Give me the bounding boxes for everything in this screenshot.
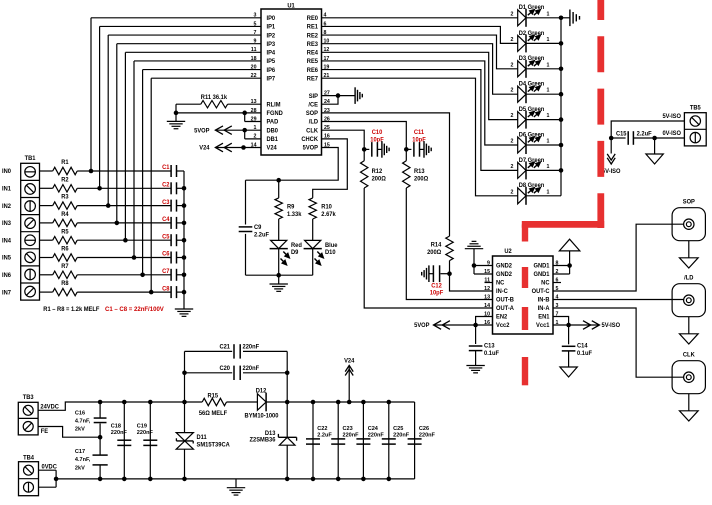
capacitor C6 [170,252,172,264]
svg-text:EN2: EN2 [496,315,508,321]
LED D8 Green [518,188,526,204]
TVS diode D11 top half [176,433,193,441]
svg-text:2.2uF: 2.2uF [317,432,332,438]
svg-text:4.7nF,: 4.7nF, [75,418,91,424]
svg-text:IN2: IN2 [2,204,12,210]
wire R6 to junction [77,257,134,259]
capacitor C16 [94,417,107,419]
ground CLK connector [679,411,698,421]
svg-text:IP7: IP7 [267,76,276,82]
wire PAD stub [245,121,261,123]
wire R3 to junction [77,205,108,207]
svg-text:2.67k: 2.67k [321,212,336,218]
svg-text:SIP: SIP [309,94,318,100]
wire C25 column [388,402,390,479]
svg-text:V24: V24 [199,146,210,152]
wire C3 to ground rail [177,205,185,207]
capacitor C7 [170,269,172,281]
wire SIP junction to sideways ground [338,95,355,97]
wire C14 to ground [568,351,570,367]
wire bus IP5 vertical [133,61,135,258]
junction D12/C20 node [285,400,290,405]
resistor R6 [53,254,77,261]
wire V24 to pin 14 [215,147,261,149]
svg-text:R7: R7 [61,264,69,270]
svg-text:D9: D9 [291,250,299,256]
svg-text:R10: R10 [321,205,332,211]
wire D7 cathode to rail [526,169,561,171]
capacitor C26 [408,438,422,440]
svg-text:24VDC: 24VDC [40,404,59,410]
connector CLK body [672,361,705,394]
svg-text:OUT-C: OUT-C [532,289,551,295]
D5 emission arrows [528,114,531,117]
svg-text:R2: R2 [61,177,69,183]
svg-text:IN0: IN0 [2,169,12,175]
junction EN2/Vcc2 [473,323,478,328]
D7 emission arrows [528,165,531,168]
connector SOP contact [684,219,694,229]
svg-text:C14: C14 [577,343,588,349]
svg-text:IP5: IP5 [267,59,276,65]
TB1 screw terminal IN0 [25,167,36,178]
wire CLK connector ground stem [688,394,690,411]
wire TB4 pin2 [39,486,57,488]
svg-text:R1: R1 [61,160,69,166]
capacitor C21 [233,344,235,358]
connector /LD contact [684,295,694,305]
junction D13 rail bottom [285,477,290,482]
connector SOP body [672,208,705,241]
wire TB1 IN5 to R6 [40,257,53,259]
TB1 screw terminal IN5 [25,252,36,263]
junction C23 top [336,400,341,405]
svg-text:C8: C8 [162,286,170,292]
svg-text:220nF: 220nF [111,430,128,436]
svg-text:/LD: /LD [684,275,693,281]
TB5 screw terminal 1 [690,116,700,126]
wire R9 stem [278,180,280,198]
junction C17 rail [98,477,103,482]
svg-text:C17: C17 [75,449,85,455]
wire C12 to ground [430,273,434,275]
svg-text:C6: C6 [162,252,170,258]
wire C11 node [406,148,411,150]
TB1 screw terminal IN7 [25,286,36,297]
svg-text:RE2: RE2 [307,33,319,39]
TB3 screw terminal 1 [23,405,33,415]
junction C2 ground rail [182,186,187,191]
wire D13 bottom [286,445,288,479]
TB1 screw terminal IN6 [25,269,36,280]
D6 emission arrows [528,140,531,143]
svg-text:CHCK: CHCK [301,137,318,143]
svg-text:R8: R8 [61,281,69,287]
wire C19 column [149,402,151,479]
wire C21 right lead [243,350,287,352]
TB1 screw terminal IN4 [25,235,36,246]
svg-text:1: 1 [547,138,550,144]
capacitor C17 [93,454,108,456]
ground C11 [423,141,425,158]
svg-text:R12: R12 [372,169,383,175]
wire bus IP6 vertical [142,70,144,275]
junction C22 bottom [311,477,316,482]
wire EN2 stub [476,317,493,326]
wire C20 right lead [243,372,287,374]
wire R2 to junction [77,187,99,189]
wire FGND to PAD [244,113,246,122]
svg-text:2.2uF: 2.2uF [637,131,652,137]
svg-text:C22: C22 [317,426,327,432]
junction LED rail D5 [559,117,564,122]
wire C12 node to U2 IN-C [450,274,493,291]
ground C14 triangle [560,367,577,377]
svg-text:2.2uF: 2.2uF [254,232,269,238]
TB5 screw terminal 2 [690,132,700,142]
svg-text:GND2: GND2 [496,264,513,270]
TB1 cell divider 6 [21,265,40,267]
wire TB1 IN7 to R8 [40,291,53,293]
zener diode D13 [278,436,296,438]
wire SOP connector ground stem [688,241,690,258]
wire bus IP4 vertical [124,52,126,240]
svg-text:IP2: IP2 [267,33,276,39]
TB4 screw terminal 2 [24,482,34,492]
V24 arrow at pin 14 [215,143,223,152]
isolation boundary corner segment [522,221,604,228]
wire TB4 tie [55,470,57,487]
terminal block TB1 [21,163,40,300]
wire GND2 pin15 stub [474,273,493,275]
wire RE5 to D6 [322,61,518,145]
capacitor C22 [306,438,320,440]
svg-text:C11: C11 [414,130,425,136]
junction R14/C12 [447,271,452,276]
capacitor C25 [382,438,396,440]
wire TB1 IN2 to R3 [40,205,53,207]
wire D13 top [286,402,288,437]
junction CLK/C10/R12 [362,147,367,152]
ground C15 triangle [646,154,663,164]
svg-text:C1 – C8 = 22nF/100V: C1 – C8 = 22nF/100V [105,306,165,313]
wire GND2 pin9 stub [474,265,493,267]
wire 0V rail ground stem [235,479,237,488]
junction R5/IP4 bus [123,238,128,243]
wire bus IP2 horizontal to U1 [108,34,261,36]
junction DB0/DB1 [242,128,247,133]
wire bus IP1 horizontal to U1 [100,25,261,27]
junction LED rail D2 [559,41,564,46]
svg-text:R9: R9 [287,205,295,211]
TB4 divider [19,478,39,480]
capacitor C1 [170,165,172,177]
wire junction to C3 [108,205,171,207]
D8 emission arrows [528,191,531,194]
wire D9 to ground rail [278,249,280,276]
wire R8 to junction [77,291,151,293]
svg-text:OUT-A: OUT-A [496,306,515,312]
svg-text:Vcc2: Vcc2 [496,323,510,329]
wire C10 node to R12 [363,149,365,160]
svg-text:Z2SMB36: Z2SMB36 [249,437,276,443]
wire C15 ground stem [654,138,656,154]
D9 emission arrows [283,252,286,255]
svg-text:D13: D13 [265,431,276,437]
resistor R5 [53,237,77,244]
wire SIP to ground [322,95,339,97]
resistor R7 [53,271,77,278]
svg-text:DB1: DB1 [267,137,279,143]
svg-text:C7: C7 [162,269,170,275]
junction C19 top [148,400,153,405]
svg-text:R15: R15 [208,393,219,399]
wire D12 to V24 rail [266,401,415,403]
svg-text:220nF: 220nF [419,432,436,438]
svg-text:IP0: IP0 [267,16,276,22]
wire /CE tie [322,96,339,105]
capacitor C8 [170,286,172,298]
junction ground rail [276,273,281,278]
svg-text:RE4: RE4 [307,50,319,56]
junction R1/IP0 bus [89,169,94,174]
wire TB1 IN6 to R7 [40,274,53,276]
wire junction to C6 [134,257,171,259]
svg-text:PAD: PAD [267,120,279,126]
wire RE1 to D2 [322,26,518,43]
svg-text:IN-A: IN-A [538,306,551,312]
resistor R1 [53,167,77,174]
wire bus IP1 vertical [99,26,101,188]
wire R11 left lead [176,103,201,105]
LED D5 Green [518,112,526,128]
wire C13 stem [475,325,477,344]
wire D8 cathode to rail [526,195,561,197]
svg-text:Blue: Blue [325,243,338,249]
wire C7 to ground rail [177,274,185,276]
wire D11 bottom [184,449,186,479]
resistor R13 [403,161,410,188]
svg-text:R6: R6 [61,247,69,253]
svg-text:2: 2 [511,62,514,68]
svg-text:2: 2 [511,113,514,119]
svg-text:/CE: /CE [308,102,318,108]
svg-text:1: 1 [547,88,550,94]
junction C3 ground rail [182,203,187,208]
wire TB5 5V-ISO [611,121,684,138]
wire 5VOP to DB0 [215,129,261,131]
wire D1 cathode to rail [526,17,561,19]
junction V24 pin 14 [241,145,246,150]
junction TB4/0V rail [54,477,59,482]
wire R5 to junction [77,239,125,241]
svg-text:R3: R3 [61,195,69,201]
resistor R10 [309,198,316,219]
svg-text:1: 1 [547,62,550,68]
wire TB3 24VDC [38,402,202,410]
wire rail to ground [183,292,185,309]
wire C15 right lead [634,137,684,139]
svg-text:2: 2 [511,138,514,144]
svg-text:TB4: TB4 [23,455,35,461]
svg-text:1: 1 [547,37,550,43]
junction LED rail D1 [559,15,564,20]
wire junction to C1 [91,170,171,172]
junction R3/IP2 bus [106,203,111,208]
capacitor C14 [562,345,576,347]
capacitor C24 [356,438,370,440]
wire SOP to R14 [322,113,450,236]
svg-text:Vcc1: Vcc1 [536,323,550,329]
junction C25 top [387,400,392,405]
svg-text:C13: C13 [484,343,495,349]
wire junction to C7 [143,274,172,276]
svg-text:220nF: 220nF [137,430,154,436]
svg-text:IP4: IP4 [267,50,276,56]
wire D5 cathode to rail [526,119,561,121]
svg-text:U2: U2 [504,249,512,255]
svg-text:TB5: TB5 [690,106,702,112]
svg-text:FE: FE [41,429,48,435]
ground LED rail [569,10,571,27]
wire R12 to U2 OUT-A [364,188,492,308]
svg-text:C21: C21 [219,344,230,350]
ground C13 [466,365,484,367]
svg-text:C16: C16 [75,410,85,416]
junction LED rail D4 [559,92,564,97]
junction FGND/PAD [242,111,247,116]
svg-text:IN-B: IN-B [538,298,550,304]
svg-text:R1 – R8 = 1.2k MELF: R1 – R8 = 1.2k MELF [43,307,100,313]
ground C1-C8 [175,308,193,310]
resistor R2 [53,185,77,192]
svg-text:C24: C24 [368,426,379,432]
junction C5 ground rail [182,238,187,243]
TB1 cell divider 2 [21,197,40,199]
wire NC pin6 stub [553,282,561,284]
junction C4 ground rail [182,221,187,226]
wire C26 column [414,402,416,479]
junction R9 top [276,178,281,183]
junction GND2 [472,263,477,268]
wire IN-A to CLK connector [553,308,684,377]
wire LED cathode rail [560,18,562,196]
svg-text:BYM10-1000: BYM10-1000 [245,413,280,419]
svg-text:RE6: RE6 [307,68,319,74]
capacitor C3 [170,200,172,212]
junction LED rail D3 [559,67,564,72]
svg-text:1.33k: 1.33k [287,212,302,218]
junction V24 stem [347,400,352,405]
TVS diode D11 bottom half [176,441,193,449]
capacitor C2 [170,182,172,194]
svg-text:C4: C4 [162,217,170,223]
wire GND1 pin2 stub [553,273,570,275]
svg-text:220nF: 220nF [243,344,260,350]
wire D9/D10 ground rail [246,274,313,276]
wire C10 to ground [377,148,382,150]
wire C10 node [364,148,369,150]
wire D4 cathode to rail [526,93,561,95]
svg-text:OUT-B: OUT-B [496,298,514,304]
svg-text:200Ω: 200Ω [372,176,386,182]
wire RE6 to D7 [322,70,518,171]
svg-text:GND2: GND2 [496,272,513,278]
junction C19 bottom [148,477,153,482]
svg-text:2: 2 [511,11,514,17]
wire RE4 to D5 [322,52,518,119]
wire C9 top [245,180,247,224]
LED D7 Green [518,162,526,178]
ground C12 [428,265,430,282]
wire Vcc1 to 5V-ISO [553,324,599,326]
junction D11 rail bottom [182,477,187,482]
junction LED rail D6 [559,143,564,148]
capacitor C15 [627,131,629,145]
svg-text:SOP: SOP [683,199,695,205]
TB3 screw terminal 2 [23,422,33,432]
ground LD connector [679,334,698,344]
wire GND1 stem [569,251,571,274]
svg-text:IN7: IN7 [2,290,12,296]
wire OUT-C to SOP connector [553,224,684,291]
wire bus IP3 horizontal to U1 [117,43,261,45]
capacitor C19 [143,439,157,441]
svg-text:GND1: GND1 [534,264,551,270]
D11 center bar [176,440,193,442]
wire EN1 stub [553,317,569,326]
junction C16 rail [98,400,103,405]
svg-text:C3: C3 [162,200,170,206]
junction C24 bottom [361,477,366,482]
wire C5 to ground rail [177,239,185,241]
resistor R9 [275,198,282,219]
V24 up arrow [345,365,353,371]
resistor R8 [53,288,77,295]
ground 0V rail [227,487,245,489]
svg-text:C1: C1 [162,165,170,171]
svg-text:5V-ISO: 5V-ISO [662,114,681,120]
wire DB0 to DB1 [244,130,246,139]
capacitor C4 [170,217,172,229]
svg-text:2kV: 2kV [75,465,85,471]
svg-text:TB3: TB3 [23,395,35,401]
wire C11 node to R13 [405,149,407,160]
capacitor C18 [117,439,131,441]
wire C6 to ground rail [177,257,185,259]
svg-text:13: 13 [484,294,490,300]
svg-text:1: 1 [547,113,550,119]
ground FGND [167,120,185,122]
wire C17 bottom [99,465,101,479]
wire bus IP4 horizontal to U1 [125,51,261,53]
wire C20/C21 right vertical [286,351,288,402]
junction LED rail D7 [559,168,564,173]
wire C2 to ground rail [177,187,185,189]
wire CLK to C10 node [322,130,365,149]
wire C4 to ground rail [177,222,185,224]
5VOP arrow at DB0 [215,126,223,135]
D10 emission arrows [317,252,320,255]
diode D12 [257,394,266,410]
svg-text:C9: C9 [254,225,262,231]
wire C20/C21 left vertical [184,351,186,402]
wire C15 left lead [611,137,625,139]
terminal block TB4 [19,462,39,496]
svg-text:IP1: IP1 [267,25,276,31]
svg-text:1: 1 [547,11,550,17]
wire NC pin11 stub [485,282,493,284]
